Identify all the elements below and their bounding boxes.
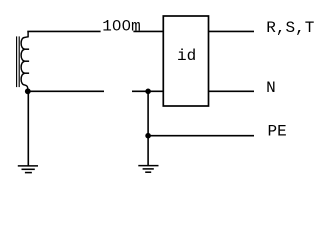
svg-text:PE: PE	[268, 122, 287, 140]
wire ground stem left	[27, 91, 29, 166]
wire top right segment into box	[133, 30, 163, 32]
inductor winding tick 3	[24, 72, 29, 74]
box U1 (id)	[163, 16, 208, 106]
inductor winding tick 1	[24, 48, 29, 50]
inductor winding tick 2	[24, 60, 29, 62]
svg-text:R,S,T: R,S,T	[266, 19, 314, 37]
ground symbol middle	[138, 166, 158, 173]
node junction dot B (N / ground branch)	[145, 89, 151, 95]
wire R,S,T output	[209, 30, 255, 32]
svg-text:N: N	[266, 79, 276, 97]
wire PE output	[148, 135, 254, 137]
transformer core L1	[17, 36, 20, 87]
wire bottom right segment into box	[132, 90, 163, 92]
wire bottom left segment	[28, 90, 104, 92]
svg-text:id: id	[177, 47, 196, 65]
ground symbol left	[18, 166, 38, 173]
zero dot masks	[115, 23, 118, 26]
wire N output	[209, 90, 255, 92]
node junction dot A (inductor bottom)	[25, 88, 31, 94]
svg-text:100m: 100m	[102, 18, 140, 36]
node junction dot C (PE branch)	[145, 133, 151, 139]
wire top left segment	[27, 30, 100, 32]
wire ground stem middle	[147, 91, 149, 165]
inductor winding L1	[21, 31, 28, 91]
